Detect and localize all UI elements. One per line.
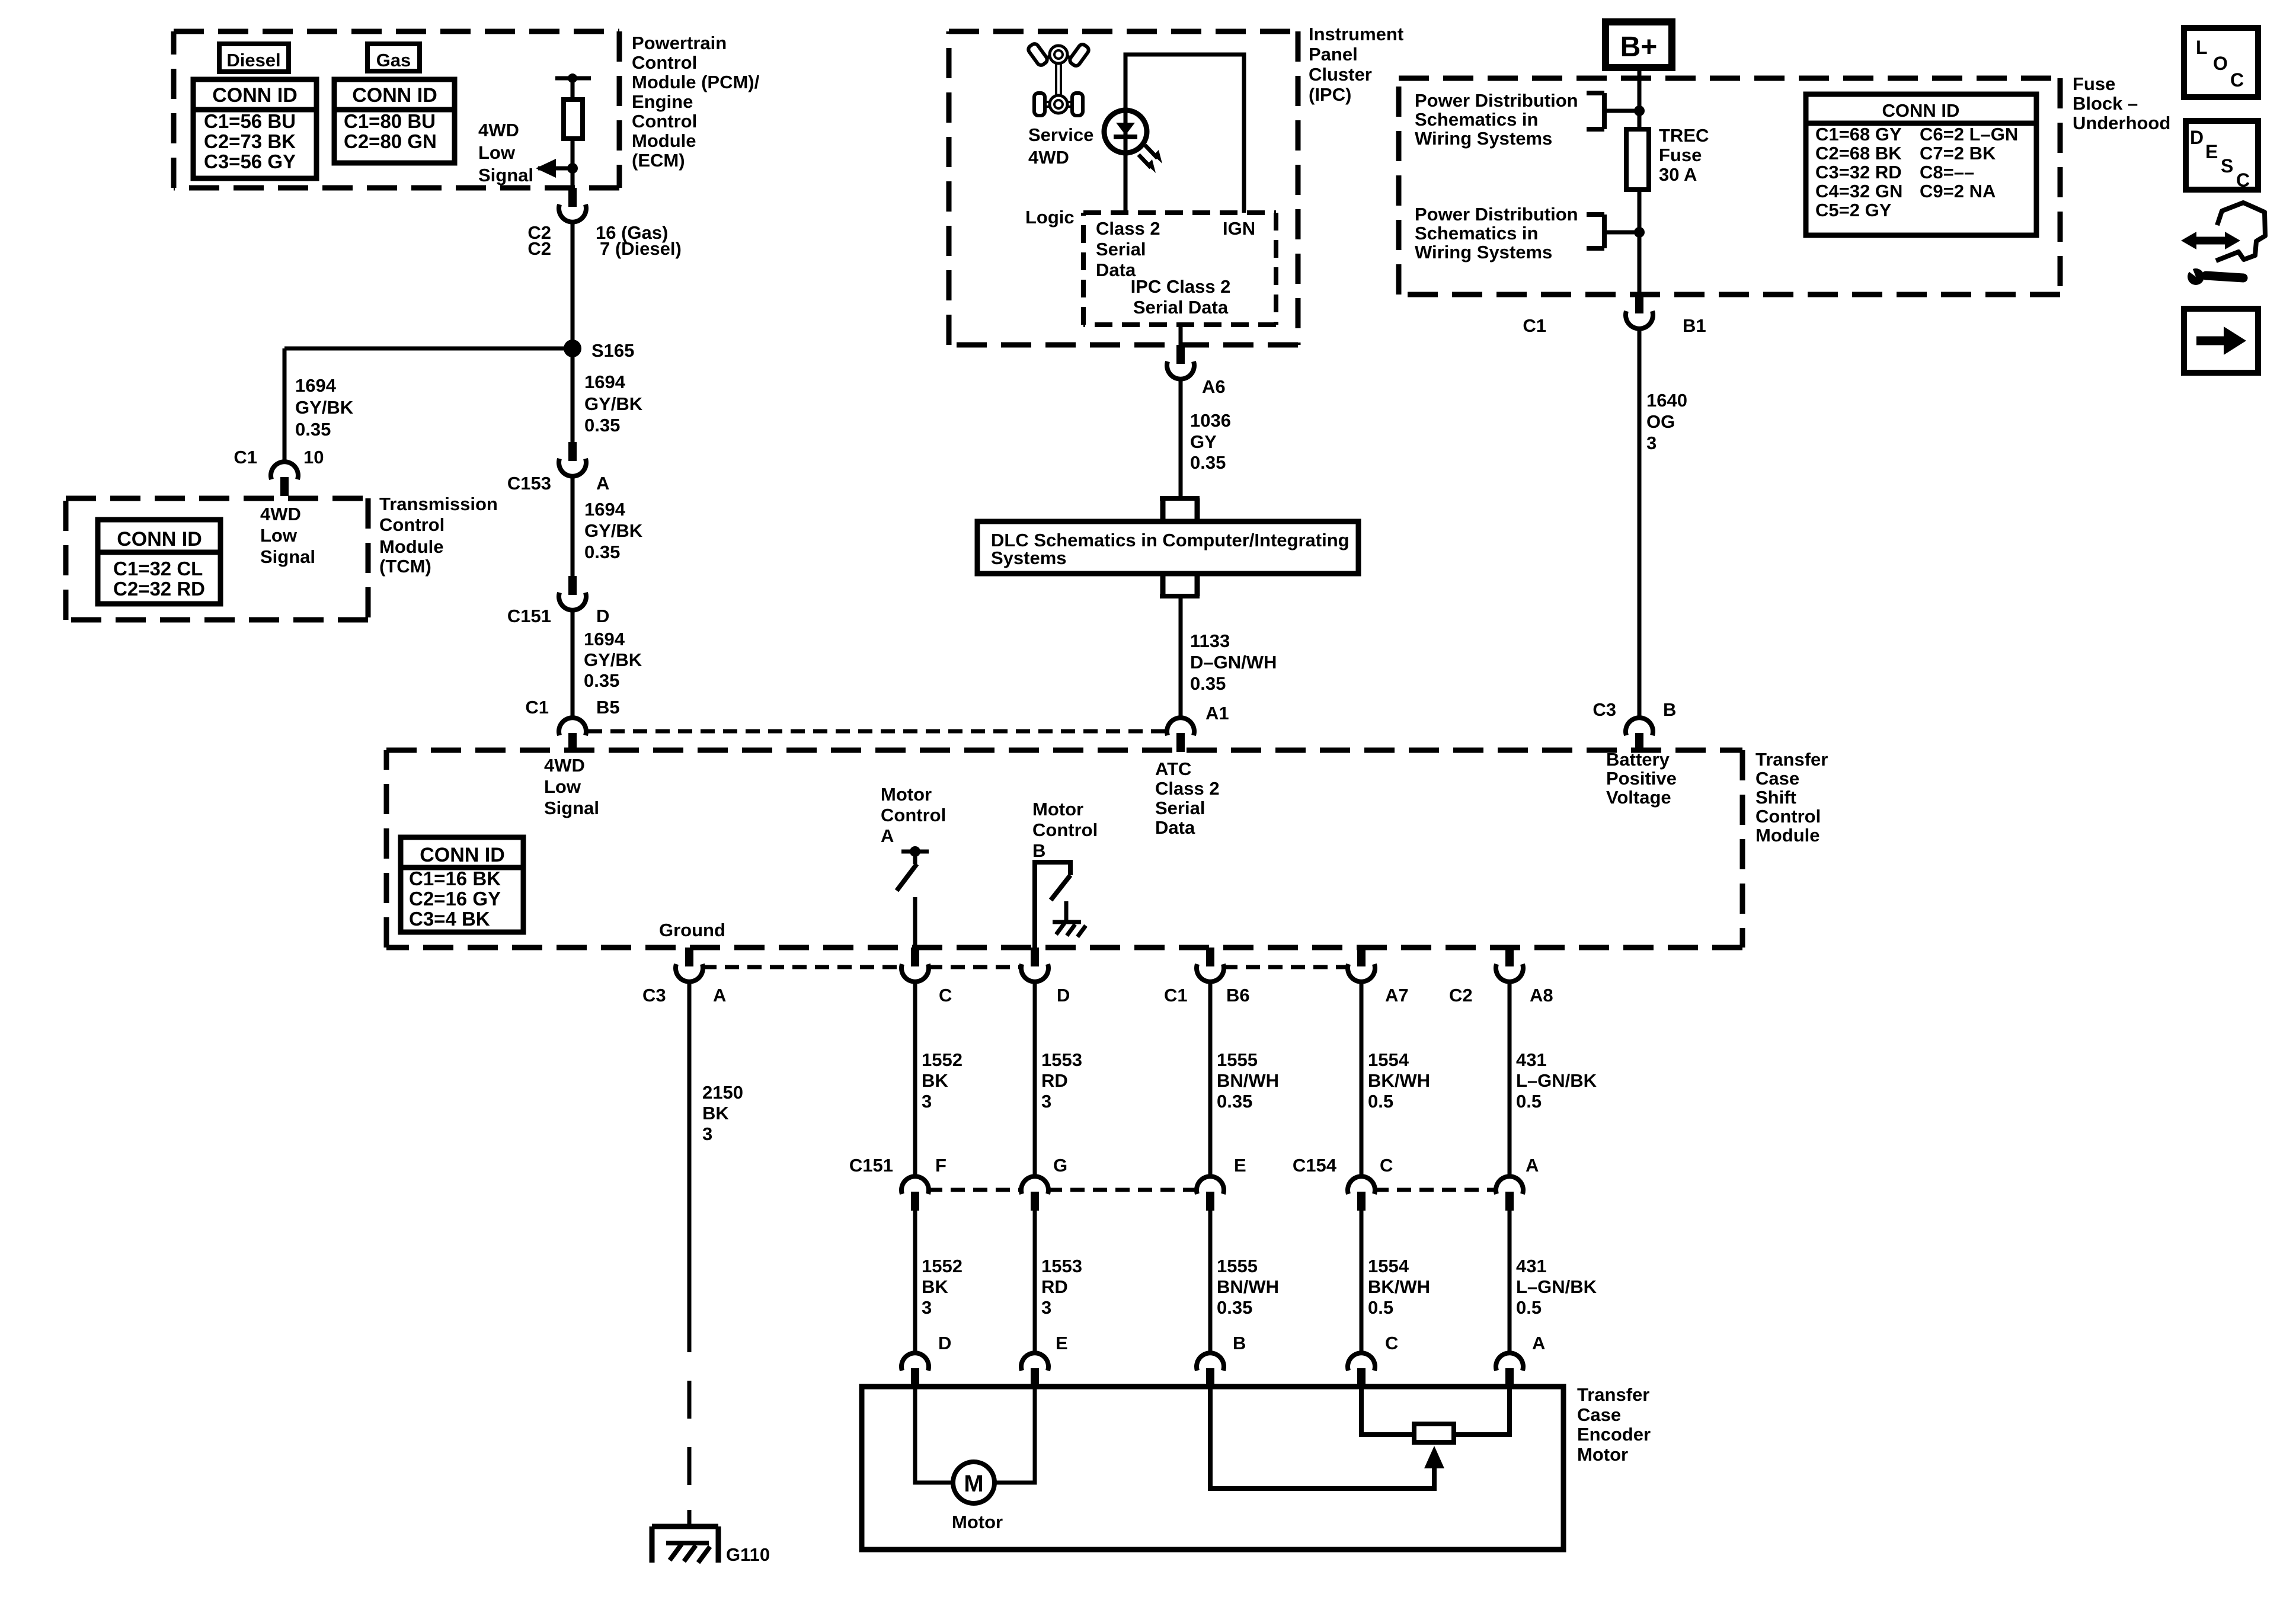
svg-text:Class 2: Class 2 [1096, 218, 1160, 239]
svg-text:C3=56 GY: C3=56 GY [204, 151, 296, 172]
svg-text:Diesel: Diesel [226, 50, 280, 71]
svg-text:C2: C2 [527, 238, 551, 259]
svg-text:C: C [2236, 169, 2250, 191]
svg-text:Low: Low [478, 142, 516, 163]
svg-text:0.35: 0.35 [1217, 1091, 1252, 1112]
svg-text:4WD: 4WD [260, 504, 301, 524]
inline connector C154 pin A [1496, 1176, 1523, 1194]
reference box DLC Schematics [977, 521, 1358, 574]
svg-text:Motor: Motor [881, 784, 932, 805]
wire C to position sensor resistor [1361, 1387, 1414, 1435]
inline connector C151 pin G [1021, 1176, 1048, 1194]
svg-text:B: B [1663, 699, 1676, 720]
svg-text:C2=32 RD: C2=32 RD [113, 578, 205, 600]
svg-text:4WD: 4WD [478, 120, 519, 140]
svg-text:RD: RD [1041, 1276, 1068, 1297]
svg-text:A7: A7 [1385, 985, 1409, 1006]
svg-text:0.35: 0.35 [1190, 452, 1226, 473]
svg-text:C1: C1 [525, 697, 549, 718]
connector C3 pin B at TCSCM [1626, 718, 1653, 735]
svg-text:B: B [1233, 1333, 1246, 1353]
svg-text:GY/BK: GY/BK [584, 520, 643, 541]
wire resistor to signal node [571, 139, 575, 188]
svg-text:Signal: Signal [260, 546, 315, 567]
page-reference staple below DLC box [1160, 574, 1166, 596]
svg-text:4WD: 4WD [1028, 147, 1069, 168]
svg-text:A8: A8 [1530, 985, 1553, 1006]
dotted interconnect F to G [928, 1188, 1022, 1192]
svg-text:431: 431 [1516, 1256, 1547, 1276]
svg-text:Case: Case [1755, 768, 1799, 789]
connector pin B at transfer case encoder motor [1197, 1353, 1224, 1371]
svg-text:C1: C1 [1164, 985, 1188, 1006]
svg-text:C: C [939, 985, 952, 1006]
svg-text:Encoder: Encoder [1577, 1424, 1651, 1445]
svg-text:0.35: 0.35 [1217, 1297, 1252, 1318]
wire C153 to C151 [571, 476, 575, 576]
svg-text:Signal: Signal [478, 165, 533, 185]
svg-text:C154: C154 [1293, 1155, 1337, 1176]
svg-text:D: D [1057, 985, 1070, 1006]
svg-text:B5: B5 [596, 697, 620, 718]
svg-text:0.5: 0.5 [1368, 1091, 1393, 1112]
svg-text:Motor: Motor [1577, 1444, 1628, 1465]
inline connector C153 pin A [568, 442, 577, 461]
connector motor control A pin C at TCSCM bottom [911, 948, 919, 966]
connector ATC serial pin B6 at TCSCM bottom [1206, 948, 1214, 966]
wire motor control A to edge [913, 897, 917, 948]
svg-text:1694: 1694 [584, 629, 625, 649]
svg-text:RD: RD [1041, 1070, 1068, 1091]
power feed symbol B+ [1606, 22, 1672, 68]
svg-text:Power Distribution: Power Distribution [1415, 204, 1578, 225]
svg-text:D: D [2190, 127, 2204, 148]
svg-text:C2: C2 [1449, 985, 1473, 1006]
inline connector C151 pin E [1197, 1176, 1224, 1194]
svg-text:Motor: Motor [952, 1512, 1003, 1532]
module box: Powertrain Control Module (PCM)/Engine Control Module (ECM) [174, 29, 619, 34]
svg-text:F: F [935, 1155, 946, 1176]
wire 1640 OG battery feed to TCSCM [1638, 329, 1642, 718]
svg-text:C3=4 BK: C3=4 BK [409, 908, 490, 930]
svg-text:Fuse: Fuse [1659, 145, 1702, 165]
svg-text:Wiring Systems: Wiring Systems [1415, 242, 1552, 263]
wire ground 2150 BK (solid part) [687, 982, 692, 1314]
svg-text:Cluster: Cluster [1309, 64, 1372, 85]
svg-text:C5=2 GY: C5=2 GY [1815, 200, 1892, 220]
svg-text:(TCM): (TCM) [379, 556, 431, 577]
svg-text:E: E [1056, 1333, 1068, 1353]
wire E to motor [996, 1387, 1035, 1483]
svg-text:Ground: Ground [659, 920, 725, 940]
svg-text:B+: B+ [1620, 31, 1658, 63]
svg-text:431: 431 [1516, 1049, 1547, 1070]
svg-text:Low: Low [544, 776, 581, 797]
svg-text:Powertrain: Powertrain [632, 33, 727, 53]
lamp circuit rail (IPC internal) [1125, 55, 1244, 213]
connector C1 pin B1 at fuse block [1635, 295, 1643, 313]
svg-text:2150: 2150 [702, 1082, 743, 1103]
internal rail wire in PCM [555, 76, 591, 81]
dotted interconnect C to A (C154) [1374, 1188, 1496, 1192]
svg-text:G110: G110 [726, 1544, 770, 1565]
svg-text:C2=73 BK: C2=73 BK [204, 130, 296, 152]
page-reference staple above DLC box [1160, 496, 1200, 501]
module box: Transfer Case Shift Control Module [386, 748, 1742, 753]
splice S165 [564, 340, 581, 357]
svg-text:L–GN/BK: L–GN/BK [1516, 1276, 1597, 1297]
wire branch S165 to TCM (horizontal) [284, 347, 573, 351]
svg-text:Schematics in: Schematics in [1415, 223, 1538, 244]
wire circuit 431 upper segment [1508, 982, 1512, 1176]
dotted interconnect G to E [1048, 1188, 1197, 1192]
svg-text:BK/WH: BK/WH [1368, 1070, 1430, 1091]
LED cathode bar [1114, 135, 1137, 139]
LED diode triangle [1116, 123, 1135, 135]
dotted interconnect ground to C [702, 965, 902, 969]
svg-text:Schematics in: Schematics in [1415, 109, 1538, 130]
svg-text:Class 2: Class 2 [1155, 778, 1220, 799]
wire rail to resistor [571, 76, 575, 100]
module box: Transmission Control Module (TCM) [66, 496, 368, 501]
svg-text:Transmission: Transmission [379, 494, 498, 514]
svg-text:B1: B1 [1683, 315, 1706, 336]
svg-text:0.5: 0.5 [1516, 1297, 1542, 1318]
svg-text:GY/BK: GY/BK [584, 393, 643, 414]
svg-text:Engine: Engine [632, 91, 693, 112]
svg-text:Serial: Serial [1096, 239, 1146, 260]
LED light arrow 2 [1139, 155, 1151, 168]
svg-text:Module: Module [379, 536, 444, 557]
wire 1694 GY/BK from PCM to S165 [571, 222, 575, 348]
wire A to position sensor resistor [1454, 1387, 1510, 1435]
wire fuse to C1/B1 [1638, 190, 1642, 295]
svg-text:1694: 1694 [295, 375, 337, 396]
svg-text:E: E [1234, 1155, 1246, 1176]
wire circuit 1555 upper segment [1208, 982, 1213, 1176]
svg-text:Module: Module [1755, 825, 1820, 846]
svg-text:A: A [881, 825, 894, 846]
svg-text:O: O [2213, 53, 2228, 74]
svg-text:Shift: Shift [1755, 787, 1796, 808]
svg-text:Transfer: Transfer [1577, 1384, 1649, 1405]
svg-text:Serial: Serial [1155, 798, 1205, 818]
svg-text:30 A: 30 A [1659, 164, 1697, 185]
wire circuit 1553 upper segment [1033, 982, 1037, 1176]
wire circuit 1553 lower segment [1033, 1211, 1037, 1353]
svg-text:1694: 1694 [584, 499, 626, 520]
wire circuit 1552 upper segment [913, 982, 917, 1176]
connector C1 pin B5 at TCSCM [559, 718, 586, 735]
connector motor control B pin D at TCSCM bottom [1031, 948, 1039, 966]
junction dot bottom feed [1634, 227, 1645, 238]
fuse TREC 30A [1626, 129, 1649, 190]
legend icon diagnostic wrench [2194, 237, 2227, 245]
svg-text:C2=68 BK: C2=68 BK [1815, 143, 1902, 164]
wire C151 to TCSCM B5 [571, 610, 575, 718]
Diesel variant tag [219, 44, 289, 72]
svg-text:GY/BK: GY/BK [584, 649, 642, 670]
svg-text:Transfer: Transfer [1755, 749, 1828, 770]
svg-text:0.35: 0.35 [1190, 673, 1226, 694]
svg-text:M: M [964, 1471, 983, 1497]
wiper arrowhead (position sensor) [1424, 1446, 1444, 1468]
wire 1036 GY from IPC to DLC ref [1179, 379, 1183, 498]
svg-text:C: C [1380, 1155, 1393, 1176]
svg-text:C1=68 GY: C1=68 GY [1815, 124, 1902, 145]
svg-text:0.35: 0.35 [584, 670, 619, 691]
svg-text:Fuse: Fuse [2073, 73, 2115, 94]
CONN ID table (TCSCM) [401, 837, 523, 932]
svg-text:10: 10 [303, 447, 324, 468]
svg-text:A: A [1532, 1333, 1545, 1353]
page reference bracket (bottom feed) [1587, 212, 1604, 217]
svg-text:Battery: Battery [1606, 749, 1670, 770]
wire 1133 D-GN/WH to TCSCM A1 [1179, 596, 1183, 718]
svg-text:C153: C153 [507, 473, 551, 494]
svg-text:GY/BK: GY/BK [295, 397, 354, 418]
module box: Instrument Panel Cluster (IPC) [949, 29, 1298, 34]
svg-text:L: L [2196, 37, 2208, 58]
svg-text:1133: 1133 [1190, 630, 1230, 651]
inline connector C151 pin F [901, 1176, 929, 1194]
LED light arrow 1 [1145, 145, 1157, 158]
wire logic to IPC edge [1179, 325, 1183, 345]
arrowhead 4WD Low Signal (points left) [536, 159, 556, 178]
svg-text:BN/WH: BN/WH [1217, 1070, 1279, 1091]
page reference bracket (top feed) [1587, 91, 1604, 95]
legend icon DESC box [2186, 121, 2258, 190]
svg-text:C9=2 NA: C9=2 NA [1920, 181, 1996, 201]
svg-text:(ECM): (ECM) [632, 150, 685, 171]
svg-text:1694: 1694 [584, 372, 626, 392]
svg-text:BK/WH: BK/WH [1368, 1276, 1430, 1297]
svg-text:1554: 1554 [1368, 1049, 1409, 1070]
connector pin E at transfer case encoder motor [1021, 1353, 1048, 1371]
svg-text:L–GN/BK: L–GN/BK [1516, 1070, 1597, 1091]
svg-text:A6: A6 [1202, 376, 1226, 397]
wire circuit 1555 lower segment [1208, 1211, 1213, 1353]
svg-text:GY: GY [1190, 431, 1217, 452]
svg-text:TREC: TREC [1659, 125, 1709, 146]
svg-text:Module (PCM)/: Module (PCM)/ [632, 72, 760, 92]
svg-text:0.5: 0.5 [1516, 1091, 1542, 1112]
junction dot on PCM rail [568, 73, 577, 83]
svg-text:C3: C3 [642, 985, 666, 1006]
svg-text:C1: C1 [1523, 315, 1546, 336]
svg-text:Control: Control [1755, 806, 1821, 827]
connector pin A at transfer case encoder motor [1496, 1353, 1523, 1371]
svg-text:Signal: Signal [544, 798, 599, 818]
resistor (PCM pull-up) [564, 100, 583, 139]
svg-text:C: C [1385, 1333, 1398, 1353]
connector ground A at TCSCM bottom [685, 948, 693, 966]
inline connector C151 pin D [568, 576, 577, 595]
svg-text:S165: S165 [591, 340, 634, 361]
svg-text:3: 3 [1646, 433, 1657, 453]
connector C1 pin 10 at TCM [271, 462, 298, 479]
CONN ID table (Diesel PCM) [193, 79, 316, 178]
motor M (transfer case motor) [953, 1462, 994, 1503]
svg-text:Block –: Block – [2073, 93, 2138, 114]
svg-text:Systems: Systems [991, 548, 1067, 568]
svg-text:C8=––: C8=–– [1920, 162, 1974, 183]
connector C2 pin 16(Gas)/7(Diesel) at PCM [568, 188, 577, 207]
svg-text:CONN ID: CONN ID [212, 84, 298, 107]
svg-text:A: A [713, 985, 726, 1006]
connector encoder A7 at TCSCM bottom [1357, 948, 1366, 966]
svg-text:Control: Control [632, 111, 697, 132]
wire B to wiper arrow [1210, 1387, 1434, 1489]
svg-text:1036: 1036 [1190, 410, 1231, 431]
svg-text:4WD: 4WD [544, 755, 585, 776]
svg-text:Underhood: Underhood [2073, 113, 2170, 133]
position sensor resistor element [1414, 1424, 1454, 1442]
internal ground symbol (motor control B) [1064, 901, 1069, 922]
svg-text:3: 3 [1041, 1091, 1051, 1112]
wire D to motor [915, 1387, 954, 1483]
svg-text:0.5: 0.5 [1368, 1297, 1393, 1318]
inline connector C154 pin C [1348, 1176, 1375, 1194]
svg-text:CONN ID: CONN ID [1882, 100, 1960, 121]
svg-text:Case: Case [1577, 1404, 1621, 1425]
connector pin A1 at TCSCM [1167, 718, 1194, 735]
CONN ID table (TCM) [98, 520, 220, 604]
svg-text:A: A [1526, 1155, 1539, 1176]
svg-text:Control: Control [632, 52, 697, 73]
wire to signal arrow [538, 167, 573, 171]
svg-text:C1: C1 [234, 447, 257, 468]
module box: Fuse Block - Underhood [1399, 76, 2060, 81]
svg-text:C6=2 L–GN: C6=2 L–GN [1920, 124, 2018, 145]
svg-text:Low: Low [260, 525, 298, 546]
indicator LED circle Service 4WD lamp [1104, 110, 1147, 153]
svg-text:3: 3 [1041, 1297, 1051, 1318]
wire circuit 1554 lower segment [1360, 1211, 1364, 1353]
CONN ID table (Fuse Block) [1806, 94, 2036, 235]
svg-text:D: D [596, 606, 609, 626]
Gas variant tag [367, 44, 420, 71]
component box: Transfer Case Encoder Motor [862, 1387, 1563, 1550]
svg-text:OG: OG [1646, 411, 1675, 432]
dotted interconnect C to D [928, 965, 1022, 969]
svg-text:3: 3 [702, 1124, 712, 1144]
svg-text:C2=16 GY: C2=16 GY [409, 888, 501, 910]
svg-text:Service: Service [1028, 124, 1093, 145]
svg-text:Positive: Positive [1606, 768, 1677, 789]
svg-text:Logic: Logic [1025, 207, 1075, 228]
svg-text:BK: BK [922, 1276, 948, 1297]
svg-text:C1=32 CL: C1=32 CL [113, 558, 203, 580]
svg-text:C151: C151 [507, 606, 551, 626]
connector pin D at transfer case encoder motor [901, 1353, 929, 1371]
svg-text:C1=80 BU: C1=80 BU [344, 110, 436, 132]
connector encoder A8 at TCSCM bottom [1505, 948, 1514, 966]
svg-text:G: G [1053, 1155, 1067, 1176]
wire circuit 1552 lower segment [913, 1211, 917, 1353]
dotted interconnect line B5 to A1 [588, 729, 1166, 734]
svg-text:1640: 1640 [1646, 390, 1687, 411]
connector pin A6 at IPC [1176, 345, 1185, 364]
svg-text:IGN: IGN [1223, 218, 1255, 239]
svg-text:CONN ID: CONN ID [117, 528, 202, 550]
svg-text:C: C [2230, 69, 2244, 91]
svg-text:Control: Control [1032, 820, 1098, 840]
svg-text:C4=32 GN: C4=32 GN [1815, 181, 1902, 201]
svg-text:0.35: 0.35 [295, 419, 331, 440]
CONN ID table (Gas PCM) [334, 79, 455, 163]
svg-text:Data: Data [1155, 817, 1195, 838]
svg-text:7 (Diesel): 7 (Diesel) [600, 238, 682, 259]
svg-text:Voltage: Voltage [1606, 787, 1671, 808]
svg-text:C1=56 BU: C1=56 BU [204, 110, 296, 132]
svg-text:B: B [1032, 840, 1045, 861]
svg-text:A1: A1 [1205, 703, 1229, 724]
logic block box (IPC) [1083, 210, 1276, 215]
wire ground 2150 BK (dashed part) [687, 1314, 692, 1510]
svg-text:C151: C151 [849, 1155, 893, 1176]
svg-text:E: E [2205, 141, 2218, 162]
svg-text:C1=16 BK: C1=16 BK [409, 868, 501, 889]
svg-text:A: A [596, 473, 609, 494]
svg-text:BK: BK [922, 1070, 948, 1091]
svg-text:0.35: 0.35 [584, 542, 620, 562]
svg-text:D–GN/WH: D–GN/WH [1190, 652, 1277, 673]
svg-text:BN/WH: BN/WH [1217, 1276, 1279, 1297]
svg-text:C3: C3 [1593, 699, 1616, 720]
svg-text:1555: 1555 [1217, 1049, 1258, 1070]
svg-text:3: 3 [922, 1091, 932, 1112]
wire branch down to TCM C1 [283, 348, 287, 462]
switch Motor Control A (driver) [901, 850, 929, 854]
wire circuit 1554 upper segment [1360, 982, 1364, 1176]
svg-text:B6: B6 [1226, 985, 1250, 1006]
svg-text:1554: 1554 [1368, 1256, 1409, 1276]
svg-text:Control: Control [881, 805, 946, 825]
svg-text:Power Distribution: Power Distribution [1415, 90, 1578, 111]
svg-text:3: 3 [922, 1297, 932, 1318]
svg-text:CONN ID: CONN ID [420, 844, 505, 866]
wire circuit 431 lower segment [1508, 1211, 1512, 1353]
svg-text:D: D [938, 1333, 951, 1353]
svg-text:0.35: 0.35 [584, 415, 620, 436]
ground symbol G110 [687, 1510, 692, 1528]
svg-text:Panel: Panel [1309, 44, 1358, 65]
svg-text:S: S [2221, 155, 2233, 177]
dotted interconnect B6 to A7 [1223, 965, 1348, 969]
svg-text:Gas: Gas [376, 50, 411, 71]
svg-text:Serial Data: Serial Data [1133, 297, 1229, 318]
svg-text:IPC Class 2: IPC Class 2 [1131, 276, 1231, 297]
svg-text:Module: Module [632, 130, 696, 151]
wire B+ into fuse block [1638, 68, 1642, 129]
switch Motor Control B (driver) [1035, 862, 1070, 948]
wire S165 to C153 [571, 348, 575, 442]
svg-text:C2=80 GN: C2=80 GN [344, 130, 437, 152]
svg-text:CONN ID: CONN ID [352, 84, 437, 107]
junction dot top feed [1634, 105, 1645, 116]
svg-text:(IPC): (IPC) [1309, 84, 1351, 105]
svg-text:C7=2 BK: C7=2 BK [1920, 143, 1996, 164]
svg-text:Instrument: Instrument [1309, 24, 1403, 44]
svg-text:ATC: ATC [1155, 758, 1191, 779]
svg-text:1553: 1553 [1041, 1049, 1082, 1070]
connector pin C at transfer case encoder motor [1348, 1353, 1375, 1371]
svg-text:Motor: Motor [1032, 799, 1083, 820]
svg-text:Wiring Systems: Wiring Systems [1415, 128, 1552, 149]
svg-text:Control: Control [379, 514, 445, 535]
legend icon forward-arrow box [2184, 309, 2258, 373]
